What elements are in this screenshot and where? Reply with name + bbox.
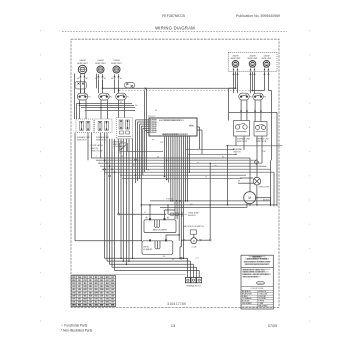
svg-text:BK: BK [121,156,123,158]
svg-text:* Non-Illustrated Parts: * Non-Illustrated Parts [61,329,93,333]
wire bus mid 3 [81,107,135,109]
wire terminal block drop 3 [192,264,194,277]
svg-text:YELLOW STRIPE: YELLOW STRIPE [243,277,259,279]
wire latch drop from bus [209,163,211,239]
wire RF element down 2 [237,72,239,93]
svg-text:WH: WH [94,292,98,294]
svg-text:GN-GREEN: GN-GREEN [242,303,252,305]
surface element center [113,66,120,73]
wire right vertical to lower bus [270,160,272,206]
svg-text:WH: WH [111,283,115,285]
surface element warmer [263,61,270,68]
junction mid bus [137,178,138,179]
junction dot 132.5,258.3 [132,258,134,260]
EOC right pin stub 1 [197,126,200,128]
wire bus to right drop [229,87,236,89]
junction dot 183.4,258.3 [183,258,185,260]
junction dot 141.3,204.9 [141,204,143,206]
svg-text:WH: WH [106,286,110,288]
wire EOC right pin drop 2 [201,130,203,154]
right-front switch contacts [235,123,247,131]
junction lower bus A [176,200,178,202]
wire bus drop to EOC P7 [146,88,148,132]
wire left-front element to switch 2 [84,80,86,93]
svg-text:WH: WH [190,204,193,206]
wire EOC pin P2 route [138,122,150,181]
diamond connector oven light feed [254,160,258,164]
revision oval [257,282,265,285]
right surface elements dashed enclosure [228,53,277,72]
surface element right rear [249,61,256,68]
junction mid bus [135,175,136,176]
wire door switch bus [128,151,164,153]
wire lower bus A [150,200,271,202]
junction latch feed [210,163,211,164]
wire terminal block drop 4 [195,267,197,277]
svg-text:P2: P2 [250,97,252,99]
surface element right front [232,61,239,68]
wire bake terminal 1 drop [149,205,151,219]
terminal blob at 166,240.4 [165,239,167,241]
wire to sensor from left bundle [119,213,166,215]
svg-text:M: M [248,196,251,200]
terminal block [185,277,201,282]
wire latch right [197,239,200,241]
svg-text:BK: BK [120,102,122,104]
terminals of surface element center [111,74,122,80]
svg-text:WH: WH [72,305,76,307]
wire center box drop 2 [120,139,122,163]
svg-text:LATCH MOTOR SWITCH: LATCH MOTOR SWITCH [183,225,204,228]
switch contact center surface switch [116,93,129,100]
junction mid bus [106,163,107,164]
svg-text:BK: BK [197,163,199,165]
wire RF element down [233,72,235,93]
junction lower bus A [187,200,189,202]
wire right vertical lower seg [270,198,272,205]
svg-text:N.O.: N.O. [119,153,123,155]
wire terminal block drop 5 [198,270,200,277]
wire bake terminal 2 drop [164,210,166,219]
svg-text:DISCONNECT POWER: DISCONNECT POWER [247,259,268,261]
left-rear switch contacts [98,121,102,130]
wire RF box down [235,136,237,146]
wire RR box down 2 [261,136,263,163]
wire center box drop 4 lower [125,169,127,264]
svg-text:P1: P1 [127,97,129,99]
svg-text:SWITCH RR: SWITCH RR [256,141,267,143]
svg-text:SURF UNIT: SURF UNIT [230,58,241,60]
wire mid bus 5 [102,168,271,170]
convection fan motor [244,192,256,204]
svg-text:GY: GY [205,177,207,179]
wire bake to harness [165,209,176,211]
junction RR at bus L2 [252,90,254,92]
wire mid bus 3 [98,162,262,164]
wire right mid drop [227,146,229,205]
wire CTR box down [109,139,111,166]
wire left long vertical to broil [74,133,76,241]
left-front element plug connector [75,82,86,89]
wire RR element down 2 [254,72,256,93]
wire sensor left leg [167,205,169,214]
switch contact left front surface switch [77,93,90,100]
svg-text:V: V [99,162,100,164]
wire left-rear element to switch 2 [102,80,104,93]
terminals of surface element warmer [263,67,269,75]
wire lower bus B [141,204,277,206]
svg-text:SURF UNIT: SURF UNIT [261,58,272,60]
svg-text:TERMINAL BLOCK: TERMINAL BLOCK [186,284,202,287]
wire EOC right pin drop 1 [199,127,201,149]
wire EOC pin P6 route [145,130,149,172]
svg-text:SWITCH: SWITCH [234,151,242,153]
wire latch right 2 [202,239,210,241]
surface element left rear [97,66,104,73]
svg-text:GY: GY [144,212,146,214]
infinite switch box left-front (dashed) [76,119,93,133]
wire right left-edge drop [228,88,230,120]
wire fan-out line 3 to terminal block [110,263,194,265]
junction lower bus A [172,200,174,202]
svg-text:BK: BK [172,259,174,261]
wire color code table [71,276,115,307]
wire latch lower drop [179,247,181,258]
wire P4 to broil box [140,240,143,242]
junction mid bus [109,166,110,167]
junction dot 129,261.1 [128,260,130,262]
wire EOC pin P4 route [141,126,149,241]
left-front switch contacts [80,121,84,130]
svg-text:SURF UNIT: SURF UNIT [247,58,258,60]
svg-text:Publication No. 5995440969: Publication No. 5995440969 [236,14,280,18]
svg-text:WH: WH [135,105,138,107]
svg-text:P10 P11 P12 P13 P1: P10 P11 P12 P13 P1 [163,134,179,136]
svg-text:FEF387NECB: FEF387NECB [162,14,185,18]
wire center-left long vertical 2 [132,139,134,258]
wire fan-out line 1 to terminal block [105,257,188,259]
bake element terminals [146,218,170,221]
inline connector plug top [125,82,147,89]
svg-text:WH: WH [89,295,93,297]
svg-text:BAKE ELEMENT: BAKE ELEMENT [153,229,168,232]
svg-text:♀ DLB: ♀ DLB [191,246,197,249]
surface element left front [78,65,86,73]
wire EOC pin P5 route [143,128,149,175]
wire mid bus 6 [104,171,274,173]
wire center box drop 3 [122,139,124,166]
EOC bottom pin row labels [163,133,186,136]
wire oven light down [256,185,258,205]
fold mark right [309,30,311,344]
wire center box drop 4 [125,139,127,169]
wire RF switch to box 2 [246,100,248,121]
wire LF plug to switch [80,89,82,93]
terminals of surface element left rear [95,74,106,80]
wire warmer element down 2 [268,72,270,91]
svg-text:P9: P9 [152,140,154,142]
oven light lamp [253,177,261,185]
wire left-rear element to switch [98,80,100,93]
wire center element to switch 2 [118,80,120,93]
svg-text:ELEMENT: ELEMENT [144,249,154,251]
wire EOC to right bus 1 [185,148,234,150]
wire bus mid 2 [79,105,135,107]
bake element coil [155,220,160,228]
junction fan line 3 [126,264,128,266]
junction dot 150,204.9 [149,204,151,206]
LF plug contacts [78,83,85,85]
wire conv motor top [249,158,251,192]
junction lower bus A [170,200,172,202]
svg-text:SENSOR: SENSOR [188,215,196,217]
wire far right vertical [276,112,278,206]
infinite switch right-rear box [254,122,267,137]
junction mid bus [104,160,105,161]
wire CTR link [118,88,120,90]
wire fan-out line 2 to terminal block [107,260,190,262]
wire latch left 2 [185,239,191,241]
svg-text:H1: H1 [104,78,106,80]
switch contact right rear surface switch [253,93,266,100]
center switch box (dashed) [117,118,133,139]
wire EOC pin P3 route [140,124,150,179]
wire left to broil element [75,240,142,242]
wire warmer bus left [253,90,265,92]
wire terminal block drop 2 [189,261,191,278]
oven light filament [254,179,259,184]
svg-text:P1 BK WH: P1 BK WH [166,198,173,200]
chevron marker on wire x=255.1 [254,110,256,112]
wire left bundle vertical 5 lower [114,172,116,270]
wire neutral along bottom [71,274,186,276]
warning heading underlays [244,256,271,265]
terminals of surface element right rear [249,67,255,75]
svg-text:13: 13 [171,324,175,328]
wire LF switch to box 2 [85,100,87,119]
wire right long vertical 1 [271,91,273,161]
junction lower bus B [209,204,211,206]
wire center box drop 1 [118,139,120,160]
wire harness extra 2 [188,136,190,172]
wire CTR box down 2 [111,139,113,169]
fold mark left [40,30,42,330]
warning paragraph underlays [243,269,272,278]
junction RF at bus L1 [235,87,237,89]
center switch contacts [119,120,123,129]
junction lower bus B [256,204,258,206]
broil element coil [155,241,160,249]
wire mid bus 7 [120,174,246,176]
switch contact left rear surface switch [99,93,112,100]
wire warmer element down [264,72,266,91]
wire LR switch to box 2 [107,100,109,119]
junction dot 166.6,179.5 [166,179,168,181]
junction ring 1 [104,169,106,171]
junction mid bus [114,172,115,173]
svg-text:07/05: 07/05 [268,324,277,328]
wire LR box down [104,133,106,161]
chevron marker on wire x=260.9 [260,110,262,112]
junction lower bus A [185,200,187,202]
svg-text:SURF UNIT: SURF UNIT [111,63,122,65]
junction ring 4 [180,257,182,259]
color code entries [242,290,268,307]
terminal blob at 164.5,219.2 [164,218,166,220]
junction lower bus B [227,204,229,206]
broil element terminals [149,239,167,241]
EOC left pins P1-P7 [150,119,158,134]
svg-text:WH: WH [214,166,217,168]
terminals of surface element right front [232,67,238,75]
junction right bus [227,145,228,146]
wire center-left long vertical 1 [128,139,130,261]
junction broil harness [179,234,180,235]
wire RF box down 2 [243,136,245,150]
wire LF plug to switch 2 [84,89,86,93]
door latch motor [191,238,197,244]
wire right long vertical 2 [273,172,275,206]
terminal blob at 150,240.4 [149,239,151,241]
wire LF right side to bus [96,74,98,89]
switch contact right front surface switch [239,93,252,100]
svg-text:SWITCH LR: SWITCH LR [96,139,107,141]
wire broil to harness [166,234,179,236]
diagram border frame [71,39,279,307]
svg-text:P3: P3 [264,97,266,99]
wire latch left [181,239,183,241]
junction lower bus B [249,204,251,206]
chevron marker on wire x=246.9 [246,110,248,112]
svg-text:P12 J1 P2: P12 J1 P2 [148,116,155,118]
svg-text:H1: H1 [120,78,122,80]
door switch symbol [120,143,128,152]
broil element box [142,241,173,255]
svg-text:♀ Functional Parts: ♀ Functional Parts [61,324,88,328]
wire left drop 2 [76,104,78,119]
terminal blob at 150,219.2 [149,218,151,220]
wire into oven light lower-left [238,182,253,184]
wire LR to bus L1 [102,80,104,88]
wire bus L2 top (dashed) [119,90,253,92]
wire lower bus C [160,206,247,208]
svg-text:SURF UNIT: SURF UNIT [77,63,88,65]
wire center box drop 2 lower [120,163,122,258]
infinite switch right-front box [234,121,250,137]
svg-text:BEFORE SERVICING UNIT: BEFORE SERVICING UNIT [245,264,269,266]
wire cam to motor [193,234,195,238]
svg-text:COLOR CODE: COLOR CODE [251,288,264,290]
svg-text:WH: WH [100,289,104,291]
junction lower bus B [270,204,272,206]
junction dot 180,258.3 [179,258,181,260]
svg-text:DOOR LATCH: DOOR LATCH [91,144,104,147]
svg-text:L1 N: L1 N [196,258,199,260]
svg-text:WH: WH [78,302,82,304]
wire EOC pin P7 route [147,133,150,171]
svg-text:WIRING DIAGRAM: WIRING DIAGRAM [155,25,195,30]
svg-text:SWITCH LF: SWITCH LF [77,139,88,141]
svg-text:WH: WH [147,170,150,172]
wire EOC pin P1 route [136,120,150,183]
wire mid bus 2 [96,159,257,161]
wire mid bus 4 [100,165,267,167]
svg-text:SWITCH RF: SWITCH RF [237,141,248,143]
header separator dashed rule [62,31,287,33]
right-rear switch contacts [256,124,266,132]
svg-text:P1: P1 [110,97,112,99]
bake element box [144,220,176,233]
junction mid bus [166,160,167,161]
wire left-front element to switch [80,80,82,93]
junction at CTR drop [118,90,120,92]
warning box divider 2 [241,286,273,288]
wire L1 left drop from LF element [74,74,76,120]
wire bus L1 top [102,87,236,89]
wire LR box extra drop [100,133,102,158]
svg-text:WH: WH [78,277,82,279]
svg-text:2: 2 [168,217,169,219]
EOC text density underlays [162,120,193,136]
warning notes box [241,255,273,309]
wire LR switch to box [100,100,102,119]
wire left bundle vertical 1 lower [104,160,106,258]
junction right bus 2 [235,154,236,155]
wire conv motor to right vertical [256,197,271,199]
svg-text:SURF UNIT: SURF UNIT [95,63,106,65]
wire bus mid 4 [85,109,135,111]
latch motor terminals [183,239,211,241]
wire CTR box down 3 [114,139,116,172]
wire fan-out line 4 to terminal block [112,266,196,268]
svg-text:WR-W/RED: WR-W/RED [258,305,268,307]
wire RF switch to box [240,100,242,121]
svg-text:Y: Y [96,156,97,158]
svg-text:H1: H1 [86,78,88,80]
junction lower bus A [179,200,181,202]
junction bus1 [79,103,80,104]
electronic oven control EOC box [149,118,197,136]
wire CTR switch to box [118,100,120,118]
wire right bus 112 [229,111,278,113]
EOC bottom wire harness [165,136,186,258]
wire center box drop 3 lower [122,166,124,261]
warning box paragraph [243,268,270,278]
wire warmer bus right [269,90,272,92]
table cell entries [72,276,115,307]
warning box heading [244,255,271,266]
warning box divider 1 [241,266,273,268]
svg-text:WH: WH [83,299,87,301]
junction sensor bus [167,204,168,205]
junction ring sensor feed [118,213,120,215]
wire terminal block drop 1 [187,258,189,277]
svg-text:H2: H2 [77,78,79,80]
wire CTR switch to box 2 [124,100,126,118]
wire mid bus 1 [92,157,251,159]
junction fan line 2 [123,260,125,262]
svg-text:♀ SW LF & RF: ♀ SW LF & RF [90,150,103,153]
svg-text:M: M [193,240,195,243]
wire fan-out line 5 to terminal block [115,269,200,271]
junction bus3 [100,107,101,108]
wire center box drop 1 lower [118,160,120,214]
svg-text:OVEN LIGHT: OVEN LIGHT [259,186,271,188]
wire mid bus 8 [122,177,242,179]
wire RF to bus L1 [235,72,237,88]
junction ring 2 [109,175,111,177]
wire into oven light left [240,177,253,179]
